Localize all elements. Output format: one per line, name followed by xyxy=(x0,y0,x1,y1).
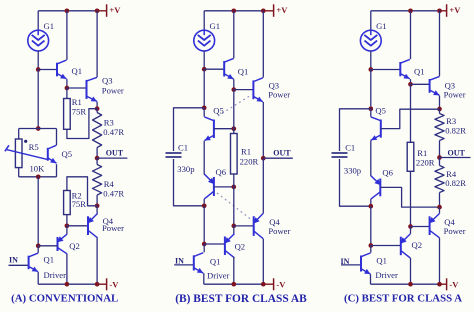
wire Q3 collector panel B xyxy=(262,11,264,78)
node OUT panel A xyxy=(95,156,100,161)
label Q4 Power panel A xyxy=(102,223,124,233)
wire Q4 base panel C xyxy=(411,226,430,228)
node: Q4 collector on rail panel C xyxy=(437,282,442,287)
label Q1 driver panel A xyxy=(44,255,55,265)
transistor Q1 panel A xyxy=(57,60,67,79)
wire Q5 emitter to box bottom panel A xyxy=(56,164,58,177)
node: G1 / Q1 base junction panel A xyxy=(36,67,41,72)
label 0.47R value of R4 panel A xyxy=(103,189,124,199)
left rail to C1 node panel B xyxy=(203,69,205,108)
wire Q1 driver emitter to rail panel B xyxy=(203,273,205,284)
node OUT panel C xyxy=(437,155,442,160)
wire Q1 driver emitter to rail panel A xyxy=(37,272,39,284)
node: C1 bottom / Q6 collector panel C xyxy=(368,204,373,209)
transistor Q4 panel A xyxy=(87,214,97,238)
label R1 panel C xyxy=(417,148,427,158)
resistor R1 75R panel A xyxy=(64,99,71,130)
svg-text:OUT: OUT xyxy=(448,149,466,158)
label R1 panel A xyxy=(72,97,82,107)
label 0.82R value of R4 panel C xyxy=(445,178,466,188)
svg-text:0.82R: 0.82R xyxy=(445,178,466,188)
svg-text:Q1: Q1 xyxy=(72,66,83,76)
svg-text:+V: +V xyxy=(109,5,121,15)
preset resistor R5 10K body panel A xyxy=(15,129,22,177)
svg-text:C1: C1 xyxy=(178,143,188,153)
wire chain Q1 emitter to R1 panel B xyxy=(233,90,235,129)
svg-text:(C) BEST FOR CLASS A: (C) BEST FOR CLASS A xyxy=(344,293,462,305)
svg-text:Q1: Q1 xyxy=(44,255,55,265)
label R5 panel A xyxy=(29,142,39,152)
wire Q1 driver emitter to rail panel C xyxy=(370,274,372,284)
wire Q5 emitter to Q6 emitter panel B xyxy=(203,141,205,175)
svg-text:C1: C1 xyxy=(345,143,355,153)
wire Q1 driver collector panel C xyxy=(370,246,372,253)
wire Q3 emitter to OUT node panel B xyxy=(262,102,264,158)
svg-text:G1: G1 xyxy=(210,21,221,31)
svg-text:Q2: Q2 xyxy=(235,242,246,252)
wire Q3 emitter down panel A xyxy=(96,102,98,109)
svg-text:Power: Power xyxy=(444,226,466,236)
-V supply symbol panel B xyxy=(263,278,286,290)
label G1 panel A xyxy=(44,21,55,31)
node: Q2 base / Q1 driver collector panel B xyxy=(202,242,207,247)
resistor R3 0.47R panel A xyxy=(93,109,102,158)
wire Q4 base panel B xyxy=(234,225,254,227)
wire Q4 collector to bottom rail panel A xyxy=(96,238,98,284)
svg-text:(A) CONVENTIONAL: (A) CONVENTIONAL xyxy=(11,293,118,305)
svg-text:Power: Power xyxy=(444,90,466,100)
wire IN to Q1 driver base panel C xyxy=(341,264,361,266)
label Q1 driver panel C xyxy=(376,256,387,266)
svg-text:-V: -V xyxy=(449,280,459,290)
title panel A xyxy=(11,293,118,305)
wire IN to Q1 driver base panel B xyxy=(174,264,194,266)
svg-text:0.82R: 0.82R xyxy=(445,126,466,136)
svg-text:Q2: Q2 xyxy=(412,240,423,250)
resistor R4 0.47R panel A xyxy=(93,158,102,206)
node: C1 top / Q5 collector panel C xyxy=(368,106,373,111)
svg-text:330p: 330p xyxy=(177,164,194,174)
left rail C1 node to Q2 base node panel B xyxy=(203,206,205,244)
svg-text:Power: Power xyxy=(102,85,124,95)
wire Q1 driver collector panel B xyxy=(203,244,205,252)
label Driver panel A xyxy=(44,270,67,280)
node: Q4 collector on rail panel B xyxy=(261,282,266,287)
wire Q4 collector to rail panel C xyxy=(439,238,441,284)
label Q1 panel A xyxy=(72,66,83,76)
left rail wire: bias bottom to Q2 base node panel A xyxy=(37,177,39,246)
wire Q1 emitter to node panel A xyxy=(66,79,68,88)
label Q5 panel B xyxy=(213,106,224,116)
wire Q4 base panel A xyxy=(67,225,88,227)
label Driver panel C xyxy=(375,270,398,280)
node: Q1 emitter / Q3 base / R1 chain panel C xyxy=(408,82,413,87)
label Q4 Power panel C xyxy=(444,226,466,236)
thermal coupling dashed line Q5-Q3 panel B xyxy=(218,95,252,117)
+V supply symbol panel A xyxy=(97,4,121,16)
node: Q4 collector on rail panel A xyxy=(95,282,100,287)
current source G1 panel B xyxy=(194,30,215,51)
label 330p value panel C xyxy=(344,166,361,176)
wire Q1 base panel A xyxy=(38,69,57,71)
wire Q1 driver collector panel A xyxy=(37,246,39,253)
transistor Q6 panel B xyxy=(204,174,214,199)
label Q1 panel C xyxy=(414,67,425,77)
svg-text:IN: IN xyxy=(341,257,350,266)
wire Q5 collector to box top panel A xyxy=(56,129,58,146)
wire top edge of bias box panel A xyxy=(19,128,57,130)
svg-text:Power: Power xyxy=(102,223,124,233)
svg-text:R1: R1 xyxy=(417,148,427,158)
label Q2 panel B xyxy=(235,242,246,252)
wire Q2 base panel C xyxy=(371,245,401,247)
transistor Q1 driver panel A xyxy=(29,253,38,272)
label 75R value of R2 panel A xyxy=(72,199,87,209)
node: Q1 emitter / R1 / Q3 base panel A xyxy=(65,86,70,91)
wire G1 bottom panel B xyxy=(203,51,205,70)
svg-text:Driver: Driver xyxy=(375,270,398,280)
node: Q5 base / R1 top panel B xyxy=(231,126,236,131)
label OUT panel C xyxy=(448,149,466,158)
wire Q6 collector to C1 bottom node panel B xyxy=(203,199,205,206)
node: R4 / Q4 emitter / R2 link panel A xyxy=(95,203,100,208)
node: top rail / Q1 collector junction panel A xyxy=(65,8,70,13)
bottom rail wire panel B xyxy=(204,283,263,285)
+V supply symbol panel B xyxy=(263,4,288,16)
thermal coupling dashed line Q6-Q4 panel B xyxy=(217,193,253,221)
node: Q3 emitter / R3 / R1 link panel A xyxy=(95,106,100,111)
wire Q5 base to chain panel B xyxy=(214,128,234,130)
wire R1 top panel A xyxy=(66,88,68,99)
R5 wiper arrow panel A xyxy=(5,145,48,159)
svg-text:G1: G1 xyxy=(44,21,55,31)
transistor Q1 driver panel C xyxy=(361,253,371,274)
svg-text:Driver: Driver xyxy=(44,270,67,280)
node: Q4 base / Q2 collector panel C xyxy=(408,224,413,229)
svg-text:R4: R4 xyxy=(104,179,115,189)
wire Q1 emitter panel B xyxy=(233,79,235,89)
svg-text:Q6: Q6 xyxy=(382,168,393,178)
svg-text:Driver: Driver xyxy=(207,270,230,280)
svg-text:Q1: Q1 xyxy=(376,256,387,266)
label Q1 panel B xyxy=(238,67,249,77)
svg-text:R5: R5 xyxy=(29,142,39,152)
label G1 panel C xyxy=(376,21,387,31)
label 0.47R value panel A xyxy=(103,127,124,137)
node: Q2 collector on rail panel A xyxy=(65,282,70,287)
label Q3 panel B xyxy=(269,81,280,91)
node: Q1 emitter / Q3 base / bias chain panel B xyxy=(231,87,236,92)
transistor Q1 panel C xyxy=(400,59,410,79)
wire R2 bottom to node panel A xyxy=(66,215,68,226)
label Q5 panel C xyxy=(375,106,386,116)
node: R2 / Q4 base / Q2 emitter panel A xyxy=(65,223,70,228)
label Q4 panel A xyxy=(103,216,114,226)
label R4 panel C xyxy=(446,169,457,179)
svg-text:+V: +V xyxy=(449,5,461,15)
label Driver panel B xyxy=(207,270,230,280)
node: Q6 base / R1 bottom panel B xyxy=(231,185,236,190)
wire G1 top panel B xyxy=(203,11,205,30)
wire Q4 emitter up panel C xyxy=(439,207,441,213)
label Q4 Power panel B xyxy=(268,226,290,236)
left rail wire: Q1 base node to bias network panel A xyxy=(37,70,39,129)
svg-text:(B) BEST FOR CLASS AB: (B) BEST FOR CLASS AB xyxy=(175,293,307,305)
svg-text:IN: IN xyxy=(9,256,18,265)
label Q6 panel B xyxy=(216,167,227,177)
node: rail / Q1 collector panel B xyxy=(231,8,236,13)
transistor Q2 panel A xyxy=(57,234,67,254)
label Q4 panel B xyxy=(269,217,280,227)
wire R2 top link to Q4 emitter node panel A xyxy=(67,177,97,206)
label IN panel C xyxy=(341,257,350,266)
transistor Q1 panel B xyxy=(224,58,234,79)
label 0.82R value panel C xyxy=(445,126,466,136)
resistor R3 0.82R panel C xyxy=(435,109,444,158)
label Q3 panel A xyxy=(102,76,113,86)
label 10K value panel A xyxy=(30,163,46,173)
node: rail / Q3 collector panel C xyxy=(437,8,442,13)
label Q6 panel C xyxy=(382,168,393,178)
transistor Q3 panel A xyxy=(87,77,98,101)
wire Q2 collector to bottom rail panel A xyxy=(66,254,68,284)
node: bottom of Vbe multiplier panel A xyxy=(36,174,41,179)
svg-text:Q3: Q3 xyxy=(102,76,113,86)
label C1 panel B xyxy=(178,143,188,153)
svg-text:Q5: Q5 xyxy=(62,149,73,159)
transistor Q4 panel B xyxy=(253,213,263,238)
svg-text:330p: 330p xyxy=(344,166,361,176)
svg-text:220R: 220R xyxy=(240,157,259,167)
wire Q3 collector to top rail panel A xyxy=(96,11,98,77)
label R1 panel B xyxy=(241,147,251,157)
label 75R value panel A xyxy=(72,106,87,116)
label 330p value panel B xyxy=(177,164,194,174)
svg-text:+V: +V xyxy=(276,5,288,15)
wire IN to Q1 driver base panel A xyxy=(9,264,29,266)
label Q2 panel C xyxy=(412,240,423,250)
transistor Q2 panel B xyxy=(224,234,234,258)
label IN panel B xyxy=(175,256,184,265)
current source G1 panel C xyxy=(360,30,381,51)
+V supply symbol panel C xyxy=(440,4,462,16)
svg-text:-V: -V xyxy=(109,280,119,290)
transistor Q5 panel B xyxy=(204,117,214,141)
wire OUT stub panel C xyxy=(440,157,471,159)
svg-text:Power: Power xyxy=(268,226,290,236)
transistor Q6 panel C xyxy=(371,176,381,199)
node: Q2 base / Q1 driver collector panel C xyxy=(368,243,373,248)
node: rail / Q3 collector panel B xyxy=(261,8,266,13)
wire OUT stub panel A xyxy=(97,157,127,159)
node: Q2 emitter on rail panel B xyxy=(231,282,236,287)
bottom rail wire panel A xyxy=(38,283,97,285)
svg-text:OUT: OUT xyxy=(273,148,291,157)
node: top of Vbe multiplier panel A xyxy=(36,126,41,131)
svg-text:Power: Power xyxy=(268,90,290,100)
node: Q3 emitter / R3 top / Q5 base link panel C xyxy=(437,107,442,112)
label Q3 Power panel B xyxy=(268,90,290,100)
resistor R2 75R panel A xyxy=(64,191,71,215)
wire Q2 collector panel C xyxy=(410,227,412,234)
wire Q6 collector panel C xyxy=(370,199,372,206)
wire R1 bottom to Q3 emitter node panel A xyxy=(67,109,97,139)
label Q2 panel A xyxy=(69,241,80,251)
wire Q3 base panel B xyxy=(234,89,254,91)
svg-text:0.47R: 0.47R xyxy=(103,189,124,199)
wire Q6 base to Q4 emitter node panel C xyxy=(380,187,439,207)
left rail to C1 node panel C xyxy=(370,70,372,109)
node: Q2 emitter on rail panel C xyxy=(408,282,413,287)
wire Q6 base to chain panel B xyxy=(214,186,234,188)
label R4 panel A xyxy=(104,179,115,189)
wire Q1 base panel C xyxy=(371,69,401,71)
wire G1 top panel C xyxy=(370,11,372,30)
wire Q2 emitter to rail panel B xyxy=(233,257,235,284)
label 220R value panel C xyxy=(416,158,435,168)
panel C top rail wire xyxy=(371,10,440,12)
svg-text:IN: IN xyxy=(175,256,184,265)
wire G1 bottom panel C xyxy=(370,51,372,70)
svg-text:0.47R: 0.47R xyxy=(103,127,124,137)
svg-text:75R: 75R xyxy=(72,199,87,209)
wire G1 top to rail panel A xyxy=(37,11,39,30)
svg-text:Q1: Q1 xyxy=(210,257,221,267)
current source G1 panel A xyxy=(28,30,49,51)
transistor Q4 panel C xyxy=(429,214,440,238)
title panel B xyxy=(175,293,307,305)
wire Q2 emitter to rail panel C xyxy=(410,258,412,284)
transistor Q3 panel C xyxy=(430,76,440,95)
bottom rail wire panel C xyxy=(371,283,440,285)
title panel C xyxy=(344,293,462,305)
label Q1 driver panel B xyxy=(210,257,221,267)
node: Q2 base / Q1 driver collector panel A xyxy=(36,243,41,248)
svg-text:75R: 75R xyxy=(72,106,87,116)
node: Q4 base / Q2 collector panel B xyxy=(231,224,236,229)
capacitor C1 330p panel B xyxy=(166,108,205,206)
wire Q1 emitter panel C xyxy=(410,79,412,84)
svg-text:Q6: Q6 xyxy=(216,167,227,177)
svg-text:OUT: OUT xyxy=(106,148,124,157)
wire Q1 collector to top rail panel A xyxy=(66,11,68,60)
wire G1 bottom to Q1 base node panel A xyxy=(37,51,39,70)
node: R4 / Q4 emitter / Q6 base link panel C xyxy=(437,205,442,210)
wire Q5 collector panel C xyxy=(370,109,372,117)
label IN panel A xyxy=(9,256,18,265)
label R2 panel A xyxy=(72,191,82,201)
label 220R value panel B xyxy=(240,157,259,167)
svg-text:R1: R1 xyxy=(241,147,251,157)
wire Q1 collector panel B xyxy=(233,11,235,58)
label Q3 panel C xyxy=(445,81,456,91)
resistor R1 220R panel C xyxy=(407,84,414,226)
wire node to Q3 base panel A xyxy=(67,87,87,89)
-V supply symbol panel C xyxy=(440,278,460,290)
capacitor C1 330p panel C xyxy=(332,109,371,206)
wire bottom edge of bias box panel A xyxy=(19,176,57,178)
svg-text:Q2: Q2 xyxy=(69,241,80,251)
wire chain R1 to Q4 base node panel B xyxy=(233,187,235,226)
node: top rail / Q3 collector junction panel A xyxy=(95,8,100,13)
transistor Q5 panel A xyxy=(48,145,57,163)
svg-text:Q5: Q5 xyxy=(375,106,386,116)
node: C1 bottom / Q6 collector panel B xyxy=(202,203,207,208)
panel B top rail wire xyxy=(204,10,263,12)
node: G1 / Q1 base panel C xyxy=(368,67,373,72)
label OUT panel A xyxy=(106,148,124,157)
wire Q2 base panel B xyxy=(204,243,225,245)
wire Q2 collector panel B xyxy=(233,226,235,234)
wire Q2 base panel A xyxy=(38,245,57,247)
wire Q3 base panel C xyxy=(411,83,430,85)
transistor Q2 panel C xyxy=(400,234,410,258)
label OUT panel B xyxy=(273,148,291,157)
wire Q1 collector panel C xyxy=(410,11,412,59)
wire Q5 collector panel B xyxy=(203,108,205,117)
svg-text:R3: R3 xyxy=(104,118,114,128)
label Q5 panel A xyxy=(62,149,73,159)
svg-text:-V: -V xyxy=(276,280,286,290)
wire Q3 emitter down panel C xyxy=(439,96,441,109)
label C1 panel C xyxy=(345,143,355,153)
resistor R4 0.82R panel C xyxy=(435,158,444,208)
node OUT panel B xyxy=(261,156,266,161)
wiper junction dot R5 panel A xyxy=(24,140,27,143)
node: G1 / Q1 base panel B xyxy=(202,67,207,72)
wire Q3 collector panel C xyxy=(439,11,441,76)
label Q3 Power panel C xyxy=(444,90,466,100)
label R3 panel A xyxy=(104,118,114,128)
panel A top rail wire xyxy=(38,10,97,12)
wire Q4 emitter up panel A xyxy=(96,206,98,214)
node: rail / Q1 collector panel C xyxy=(408,8,413,13)
transistor Q1 driver panel B xyxy=(194,253,204,273)
svg-text:Q5: Q5 xyxy=(213,106,224,116)
wire Q1 base panel B xyxy=(204,68,224,70)
-V supply symbol panel A xyxy=(97,278,119,290)
svg-text:10K: 10K xyxy=(30,163,46,173)
transistor Q5 panel C xyxy=(371,117,381,140)
node: C1 top / Q5 collector panel B xyxy=(202,105,207,110)
wire Q5 base to Q3 emitter node panel C xyxy=(381,109,440,128)
wire Q4 emitter to OUT node panel B xyxy=(262,158,264,213)
label Q3 Power panel A xyxy=(102,85,124,95)
wire OUT stub panel B xyxy=(263,157,293,159)
svg-text:G1: G1 xyxy=(376,21,387,31)
wire Q5 emitter to Q6 emitter panel C xyxy=(370,141,372,177)
left rail C1 node to Q2 base node panel C xyxy=(370,206,372,245)
wire Q4 collector to rail panel B xyxy=(262,239,264,285)
wire Q2 emitter up to node panel A xyxy=(66,226,68,234)
svg-text:Q1: Q1 xyxy=(238,67,249,77)
transistor Q3 panel B xyxy=(253,78,263,102)
label Q4 panel C xyxy=(444,217,455,227)
svg-text:Q1: Q1 xyxy=(414,67,425,77)
label G1 panel B xyxy=(210,21,221,31)
svg-text:220R: 220R xyxy=(416,158,435,168)
resistor R1 220R panel B xyxy=(231,129,238,187)
label R3 panel C xyxy=(446,116,456,126)
